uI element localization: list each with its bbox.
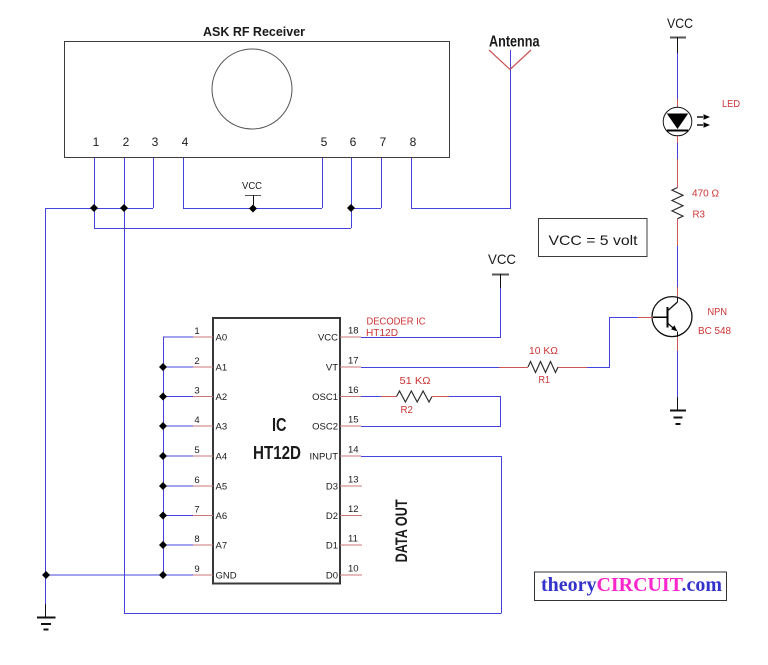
svg-text:4: 4 [182, 135, 189, 149]
svg-text:18: 18 [348, 326, 359, 337]
junction dot pin1 ground [90, 204, 98, 212]
wire ground lead black [45, 604, 47, 618]
svg-text:8: 8 [194, 534, 199, 545]
svg-text:VT: VT [326, 363, 338, 374]
svg-text:6: 6 [350, 135, 357, 149]
svg-text:R3: R3 [693, 210, 706, 221]
svg-text:12: 12 [348, 504, 359, 515]
wire ground return pin1 to pin6 [94, 228, 351, 230]
svg-text:VCC = 5 volt: VCC = 5 volt [549, 232, 638, 248]
antenna symbol [489, 34, 540, 70]
junction dot VCC tap [249, 205, 257, 213]
svg-text:7: 7 [380, 135, 387, 149]
wire receiver pin5 down [322, 158, 324, 208]
svg-text:R2: R2 [401, 405, 414, 416]
junction dots on address bus [42, 363, 167, 579]
wire receiver pin1 down [94, 158, 96, 228]
VCC symbol receiver [242, 181, 262, 205]
svg-text:3: 3 [152, 135, 159, 149]
junction dot pin2 ground [120, 204, 128, 212]
IC right pin numbers [348, 326, 359, 575]
svg-text:D1: D1 [326, 541, 338, 552]
wire receiver pin4 down [183, 158, 185, 208]
wire VT pin17 blue [361, 367, 499, 369]
svg-text:1: 1 [93, 135, 100, 149]
svg-text:GND: GND [216, 571, 237, 582]
wire R2 to OSC2 loop [361, 397, 501, 427]
ASK RF Receiver module box U2 [65, 42, 450, 158]
IC left pin blue leads to address bus [46, 337, 193, 575]
svg-text:DECODER IC: DECODER IC [367, 317, 426, 328]
IC left pin labels A0-A7 GND [216, 333, 237, 582]
wire OSC1 blue [361, 396, 381, 398]
svg-text:5: 5 [194, 445, 199, 456]
svg-text:INPUT: INPUT [310, 452, 339, 463]
resistor R1 zigzag [528, 362, 558, 373]
svg-text:theoryCIRCUIT.com: theoryCIRCUIT.com [541, 574, 722, 596]
LED D1 symbol [663, 107, 710, 136]
resistor R2 zigzag [397, 391, 432, 402]
svg-text:470 Ω: 470 Ω [692, 189, 720, 200]
VCC = 5 volt note box [539, 219, 648, 257]
svg-text:A6: A6 [216, 511, 228, 522]
svg-text:A5: A5 [216, 482, 228, 493]
wire pins 6-7 link [351, 208, 381, 210]
svg-text:DATA OUT: DATA OUT [392, 499, 411, 562]
IC left pin numbers 1-9 [194, 326, 199, 575]
svg-text:R1: R1 [539, 375, 551, 386]
IC right pin labels [310, 333, 339, 582]
IC U1 HT12D body [213, 318, 340, 584]
svg-text:A0: A0 [216, 333, 228, 344]
svg-text:A3: A3 [216, 422, 228, 433]
junction dot pin6 [347, 204, 355, 212]
svg-text:3: 3 [194, 386, 199, 397]
svg-text:5: 5 [321, 135, 328, 149]
svg-text:9: 9 [194, 564, 199, 575]
svg-text:LED: LED [722, 99, 740, 110]
wire R1 right red [558, 367, 587, 369]
svg-text:VCC: VCC [667, 15, 693, 31]
wire pin8 to antenna [411, 50, 511, 209]
svg-text:OSC2: OSC2 [312, 422, 338, 433]
wire R3 to collector [677, 219, 679, 247]
wire INPUT pin14 to bottom bus [361, 457, 502, 614]
wire receiver pin3 down [153, 158, 155, 208]
svg-text:D3: D3 [326, 482, 338, 493]
svg-text:6: 6 [194, 475, 199, 486]
wire VT red to R1 [499, 367, 528, 369]
svg-text:VCC: VCC [318, 333, 338, 344]
wire emitter down [677, 337, 679, 351]
wire red LED anode [677, 99, 679, 108]
wire address ground bus vertical [163, 337, 165, 575]
wire base network: blue from R1 up and over to base [587, 317, 638, 367]
svg-text:17: 17 [348, 356, 359, 367]
VCC symbol above IC [488, 251, 516, 288]
svg-text:D2: D2 [326, 511, 338, 522]
ground symbol left [37, 618, 56, 630]
svg-text:A1: A1 [216, 363, 228, 374]
svg-text:10: 10 [348, 564, 359, 575]
wire VCC down to pin18 [361, 288, 501, 338]
svg-text:BC 548: BC 548 [698, 326, 731, 337]
IC left pin stubs red A0-A7,GND [193, 337, 213, 575]
svg-text:11: 11 [348, 534, 358, 545]
svg-text:HT12D: HT12D [253, 443, 301, 463]
resistor R3 zigzag [672, 188, 683, 219]
svg-text:13: 13 [348, 475, 359, 486]
svg-text:D0: D0 [326, 571, 338, 582]
svg-text:ASK RF Receiver: ASK RF Receiver [203, 24, 305, 39]
svg-text:IC: IC [272, 415, 287, 435]
wire left ground drop [45, 208, 47, 604]
svg-text:8: 8 [410, 135, 417, 149]
svg-text:2: 2 [194, 356, 199, 367]
IC right pin stubs red [340, 337, 362, 575]
wire bottom data bus [124, 613, 501, 615]
wire receiver pin6 down [351, 158, 353, 228]
wire receiver pin2 down to bottom data bus [124, 158, 126, 613]
svg-text:NPN: NPN [708, 307, 728, 318]
svg-text:A7: A7 [216, 541, 228, 552]
wire R2 right red [432, 396, 449, 398]
wire LED cathode segments [677, 136, 679, 143]
svg-text:4: 4 [194, 415, 199, 426]
ground symbol right [670, 411, 686, 425]
svg-text:10 KΩ: 10 KΩ [529, 346, 559, 357]
wire VCC to LED blue [677, 53, 679, 99]
svg-text:Antenna: Antenna [489, 34, 540, 51]
svg-text:51 KΩ: 51 KΩ [400, 376, 432, 387]
wire VCC rail pins 4-5 [183, 208, 322, 210]
svg-text:15: 15 [348, 415, 359, 426]
wire ground rail pins 1-2-3 [46, 208, 154, 210]
svg-text:16: 16 [348, 385, 359, 396]
svg-text:A2: A2 [216, 392, 228, 403]
svg-text:1: 1 [194, 326, 199, 337]
svg-text:2: 2 [123, 135, 130, 149]
svg-text:A4: A4 [216, 452, 228, 463]
wire red base stub [638, 316, 653, 318]
transistor Q1 BC548 [652, 297, 692, 337]
svg-text:VCC: VCC [488, 251, 516, 267]
svg-text:OSC1: OSC1 [312, 392, 338, 403]
wire OSC1 red to R2 [381, 396, 397, 398]
wire receiver pin7 down [381, 158, 383, 208]
wire receiver pin8 down [411, 158, 413, 208]
theoryCIRCUIT.com logo box [535, 572, 727, 601]
svg-text:7: 7 [194, 505, 199, 516]
svg-text:14: 14 [348, 445, 359, 456]
svg-text:VCC: VCC [242, 181, 262, 192]
VCC symbol top right [667, 15, 693, 53]
